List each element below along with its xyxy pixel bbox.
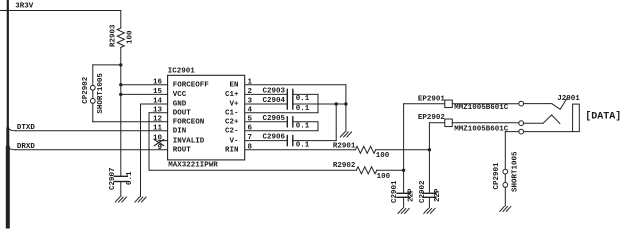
svg-text:EP2901: EP2901 — [418, 96, 446, 104]
svg-text:C2901: C2901 — [391, 180, 399, 203]
svg-text:22P: 22P — [408, 188, 416, 202]
svg-text:R2902: R2902 — [333, 162, 356, 170]
svg-text:SHORT1005: SHORT1005 — [511, 151, 519, 192]
svg-text:14: 14 — [153, 98, 163, 106]
svg-text:FORCEOFF: FORCEOFF — [173, 82, 210, 90]
svg-text:IC2901: IC2901 — [168, 68, 196, 76]
svg-text:12: 12 — [153, 115, 163, 123]
svg-text:6: 6 — [248, 124, 253, 132]
svg-text:FORCEON: FORCEON — [173, 119, 205, 127]
svg-text:C1+: C1+ — [225, 91, 239, 99]
svg-text:0.1: 0.1 — [296, 105, 310, 113]
svg-text:C2905: C2905 — [263, 115, 286, 123]
svg-text:C2-: C2- — [225, 128, 239, 136]
svg-text:2: 2 — [248, 88, 253, 96]
svg-text:10: 10 — [153, 135, 163, 143]
svg-text:4: 4 — [248, 106, 253, 114]
svg-text:C2907: C2907 — [109, 167, 117, 190]
svg-text:[DATA]: [DATA] — [585, 111, 621, 123]
svg-text:0.1: 0.1 — [296, 95, 310, 103]
svg-text:V+: V+ — [229, 101, 239, 109]
svg-text:C2906: C2906 — [263, 134, 286, 142]
svg-text:MMZ1005B601C: MMZ1005B601C — [454, 104, 509, 112]
svg-text:C2903: C2903 — [263, 87, 286, 95]
svg-text:8: 8 — [248, 143, 253, 151]
svg-text:7: 7 — [248, 134, 253, 142]
svg-text:MAX3221IPWR: MAX3221IPWR — [168, 162, 218, 170]
svg-text:MMZ1005B601C: MMZ1005B601C — [454, 126, 509, 134]
svg-text:DOUT: DOUT — [173, 110, 192, 118]
svg-text:C2+: C2+ — [225, 119, 239, 127]
svg-text:GND: GND — [173, 101, 187, 109]
svg-text:16: 16 — [153, 78, 163, 86]
svg-text:0.1: 0.1 — [296, 123, 310, 131]
svg-text:DIN: DIN — [173, 128, 187, 136]
svg-text:13: 13 — [153, 106, 163, 114]
svg-text:5: 5 — [248, 115, 253, 123]
svg-text:11: 11 — [153, 124, 163, 132]
svg-text:100: 100 — [377, 173, 391, 181]
svg-text:EN: EN — [229, 82, 238, 90]
svg-text:C2904: C2904 — [263, 97, 286, 105]
svg-text:CP2902: CP2902 — [82, 76, 90, 104]
svg-text:1: 1 — [248, 78, 253, 86]
svg-text:CP2901: CP2901 — [493, 162, 501, 190]
svg-text:15: 15 — [153, 88, 163, 96]
svg-text:DRXD: DRXD — [17, 143, 36, 151]
svg-text:RIN: RIN — [225, 147, 239, 155]
svg-text:0.1: 0.1 — [296, 141, 310, 149]
svg-text:SHORT1005: SHORT1005 — [97, 73, 105, 114]
svg-text:INVALID: INVALID — [173, 137, 205, 145]
svg-text:9: 9 — [157, 144, 162, 152]
svg-text:100: 100 — [126, 30, 134, 44]
svg-text:V-: V- — [229, 137, 238, 145]
svg-text:DTXD: DTXD — [17, 124, 36, 132]
svg-text:R2901: R2901 — [333, 142, 356, 150]
svg-text:EP2902: EP2902 — [418, 114, 446, 122]
svg-text:C1-: C1- — [225, 110, 239, 118]
svg-text:C2902: C2902 — [419, 180, 427, 203]
svg-text:ROUT: ROUT — [173, 147, 192, 155]
svg-text:100: 100 — [376, 152, 390, 160]
svg-text:22P: 22P — [434, 188, 442, 202]
svg-text:0.1: 0.1 — [126, 171, 134, 185]
svg-text:3R3V: 3R3V — [15, 2, 34, 10]
svg-text:VCC: VCC — [173, 91, 187, 99]
svg-text:R2903: R2903 — [110, 24, 118, 47]
svg-text:J2901: J2901 — [557, 95, 580, 103]
svg-text:3: 3 — [248, 98, 253, 106]
